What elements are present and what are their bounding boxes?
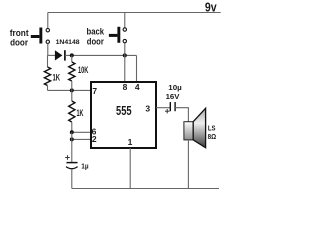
svg-text:8Ω: 8Ω <box>208 132 217 141</box>
wire S1 top contact to 9V rail <box>47 13 49 29</box>
resistor R2 10K <box>69 55 75 90</box>
speaker LS1 magnet body <box>184 122 193 140</box>
plus sign C1 polarity <box>65 155 70 160</box>
pushbutton S1 front door <box>31 28 50 44</box>
wire pin 3 output <box>156 107 170 109</box>
capacitor C1 1u electrolytic <box>66 163 78 169</box>
svg-text:8: 8 <box>123 82 128 92</box>
wire D1 cathode to pin4 branch corner <box>65 54 137 56</box>
label back door <box>87 26 105 46</box>
svg-text:back: back <box>87 26 105 36</box>
svg-text:door: door <box>10 37 28 47</box>
node D junction dot (pin 7 line) <box>70 88 74 92</box>
svg-text:1µ: 1µ <box>81 164 88 171</box>
svg-text:1K: 1K <box>53 72 61 82</box>
node C junction dot (back door / pin 8) <box>123 53 127 57</box>
speaker LS1 cone <box>193 108 205 147</box>
svg-text:1N4148: 1N4148 <box>56 39 80 46</box>
9V supply rail (top wire) <box>48 12 221 14</box>
wire pin 6 line <box>72 131 91 133</box>
capacitor C2 10u 16V <box>170 102 175 111</box>
0V bottom rail <box>72 188 219 190</box>
label front door <box>10 28 29 47</box>
wire pin 1 to 0V rail <box>129 148 131 189</box>
wire pin 2 line <box>72 138 91 140</box>
wire node F down to C1 <box>71 132 73 162</box>
resistor R1 1K (left) <box>44 55 50 90</box>
svg-text:4: 4 <box>135 82 140 92</box>
wire C2 to speaker <box>175 108 188 122</box>
pushbutton S2 back door <box>109 27 127 43</box>
svg-text:16V: 16V <box>166 94 180 101</box>
svg-text:9v: 9v <box>205 1 217 15</box>
node B junction dot (10K top) <box>70 53 74 57</box>
svg-text:door: door <box>87 36 104 46</box>
node E junction dot (pin 6) <box>70 130 74 134</box>
wire node to pin 4 <box>136 55 138 82</box>
wire C1 bottom to 0V rail <box>71 169 73 189</box>
wire S1 bottom contact down to node A <box>47 44 49 56</box>
wire node A to D1 anode <box>47 54 55 56</box>
svg-text:1: 1 <box>128 137 133 147</box>
svg-text:555: 555 <box>116 104 132 118</box>
diode D1 1N4148 <box>55 50 65 60</box>
svg-text:10µ: 10µ <box>168 85 182 92</box>
svg-text:1K: 1K <box>77 108 84 118</box>
wire pin 7 line <box>48 89 92 91</box>
svg-text:10K: 10K <box>78 65 89 75</box>
svg-text:2: 2 <box>92 134 97 144</box>
svg-text:7: 7 <box>92 86 97 96</box>
node F junction dot (pin 2) <box>70 137 74 141</box>
resistor R3 1K (middle) <box>69 90 75 132</box>
plus sign C2 polarity <box>165 109 169 113</box>
IC U1 555 timer <box>91 82 156 148</box>
svg-text:3: 3 <box>145 103 150 113</box>
wire S2 top contact to 9V rail <box>124 13 126 28</box>
wire S2 bottom contact down to pin 8 <box>124 43 126 82</box>
wire speaker bottom to 0V rail <box>187 140 189 189</box>
